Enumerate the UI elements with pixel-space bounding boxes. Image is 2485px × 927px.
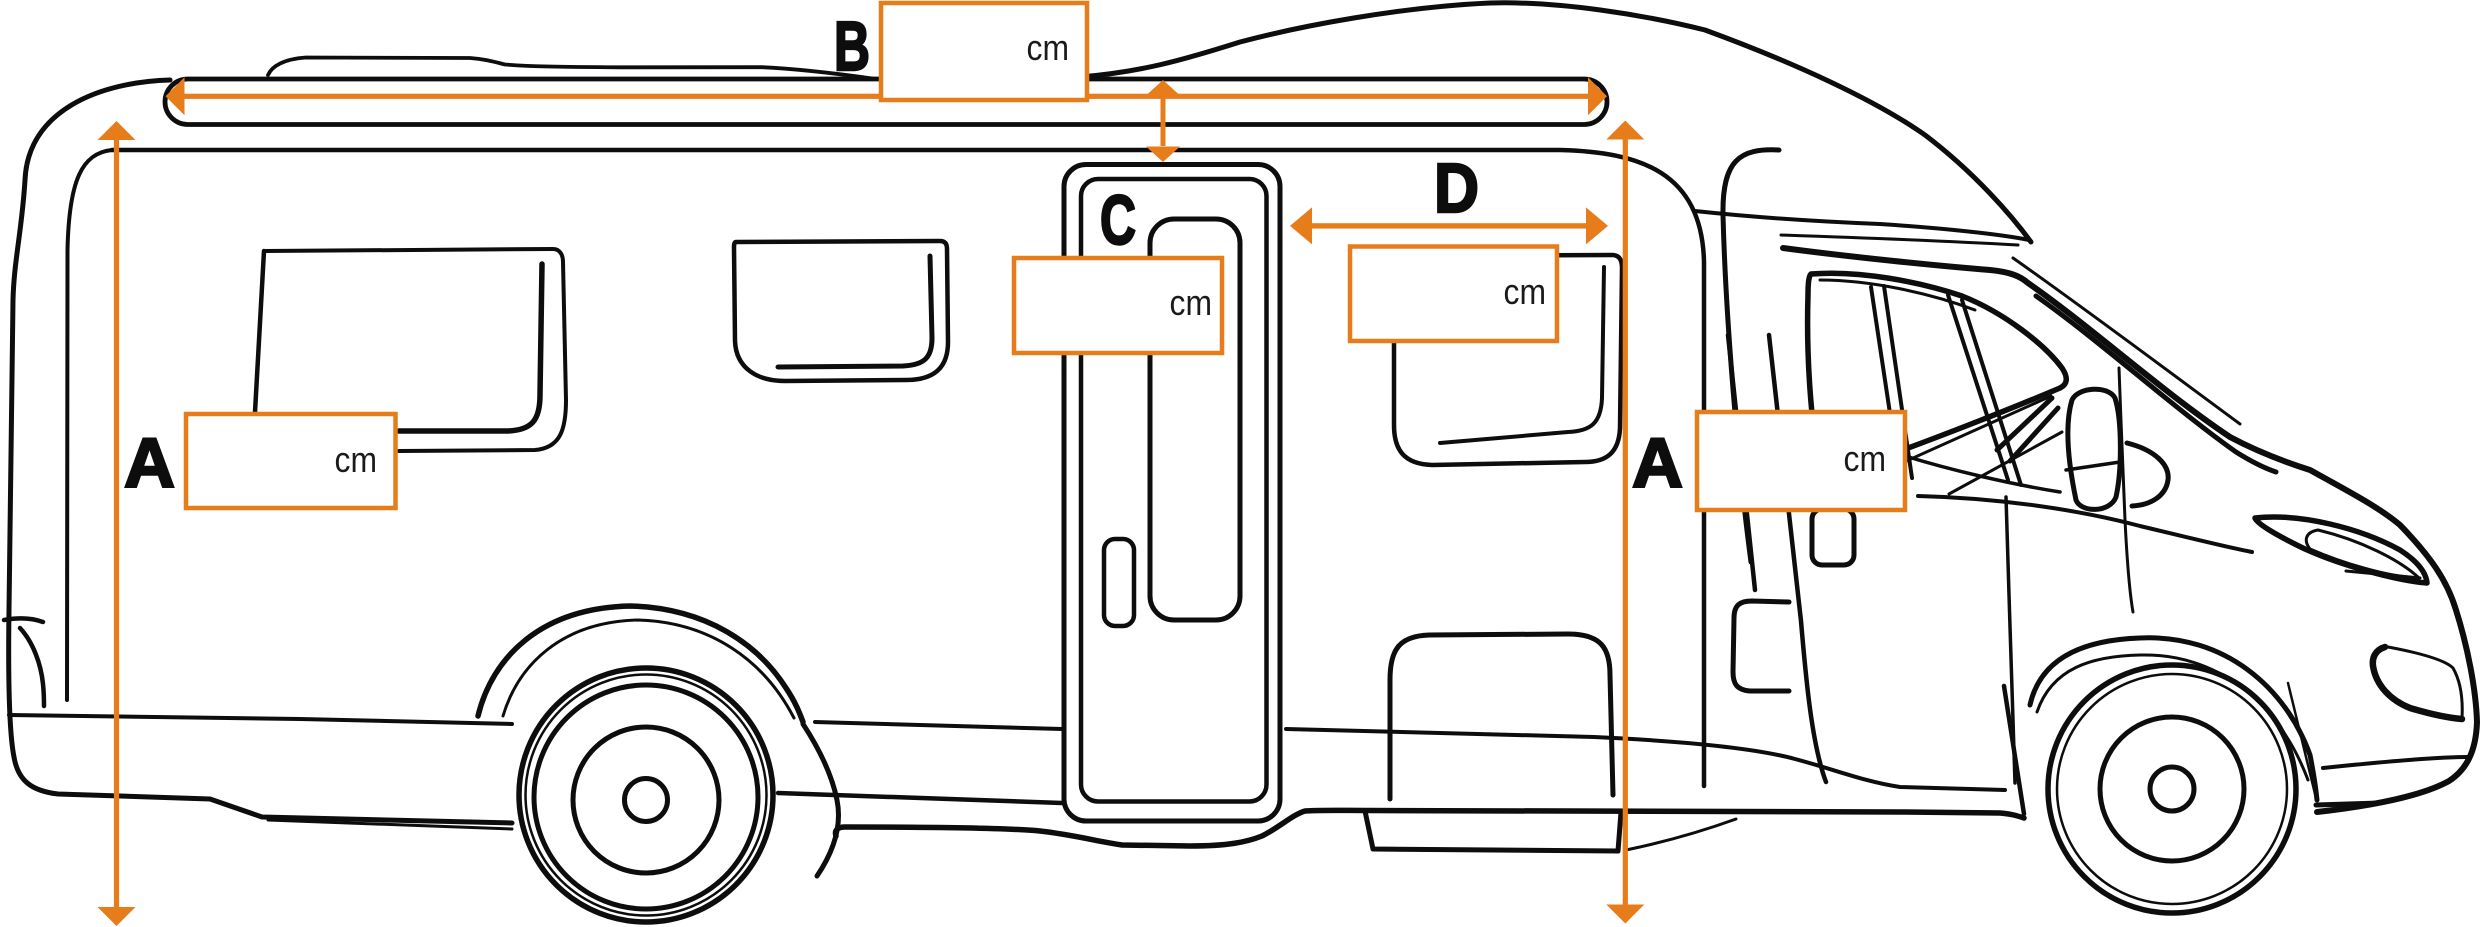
windscreen glass top edge (2013, 258, 2240, 424)
bottom edge mid (778, 793, 1062, 803)
bottom body edge swoosh (835, 810, 2024, 846)
cab side window (1808, 273, 2067, 468)
sill line front (1286, 729, 2005, 790)
cab rear pillar (1723, 150, 1779, 562)
svg-text:cm: cm (1504, 271, 1547, 312)
arrow A left head bottom (98, 907, 136, 926)
headlight accent (2346, 571, 2420, 578)
arrow A left shaft (114, 138, 119, 908)
arrow A right head top (1606, 121, 1644, 140)
rear body outer silhouette (9, 80, 512, 823)
front wheel arch leading edge (2004, 686, 2024, 814)
box A right (1697, 412, 1905, 510)
box D (1350, 247, 1557, 342)
bonnet line (1918, 496, 2252, 552)
cab door front edge upper (2119, 368, 2133, 612)
windscreen pillar drip rail and front silhouette (1783, 248, 2477, 812)
arrow A right shaft (1623, 138, 1628, 906)
overcab luton top curve (1080, 3, 2031, 242)
mirror divider (2066, 462, 2120, 470)
arrow C shaft (1161, 95, 1166, 146)
front wheel rim (2100, 717, 2244, 861)
rear inner corner line (67, 150, 112, 700)
rear wheel rim inner (573, 727, 719, 873)
front wheel tire (2048, 665, 2296, 913)
arrow C head top (1146, 80, 1180, 96)
arrow A left head top (98, 121, 136, 140)
rear wheel arch (478, 606, 803, 722)
overcab luton underside (1695, 211, 2029, 240)
cab B-pillar line 2 (1884, 286, 1912, 478)
front wheel hub (2150, 767, 2194, 811)
cab seatbelt pillar line 1 (1948, 295, 2008, 480)
headlight lens (2306, 530, 2419, 578)
svg-text:D: D (1434, 149, 1479, 227)
bumper accent line (2323, 757, 2469, 768)
rear wheel tire inner line (526, 675, 767, 916)
cab door rear edge line 2 (1769, 335, 1826, 782)
rear wheel tire (519, 668, 773, 922)
cab roof thin line (1781, 235, 2018, 245)
roof bump (268, 58, 872, 79)
cab B-pillar line 1 (1871, 287, 1900, 480)
wiper 1 (1902, 396, 2051, 463)
door window (1150, 219, 1240, 620)
svg-text:cm: cm (1027, 27, 1070, 68)
front wheel arch inner (2037, 655, 2308, 780)
sill line mid (815, 722, 1062, 729)
door handle (1104, 539, 1134, 626)
window right of door inner (1440, 267, 1604, 443)
step taper line (1626, 819, 1736, 850)
svg-text:A: A (1632, 424, 1683, 502)
entry step box (1365, 811, 1621, 851)
cab door handle recess (1733, 601, 1789, 691)
front arch trailing thin line (2288, 683, 2316, 798)
door outer (1064, 165, 1280, 822)
rear wheel rim outer (534, 685, 758, 909)
fog light (2373, 647, 2462, 719)
front wheel arch (2030, 638, 2317, 800)
mid window outer (734, 241, 948, 381)
storage hatch (1390, 634, 1613, 799)
rear wheel arch inner (503, 620, 794, 718)
roof awning rail (165, 79, 1607, 125)
svg-text:C: C (1100, 181, 1136, 259)
front wheel tire inner (2057, 674, 2287, 904)
headlight (2255, 517, 2427, 583)
mirror arm (1997, 398, 2058, 461)
mirror head (2068, 389, 2120, 509)
cab door front edge lower (2006, 497, 2015, 783)
door inner (1081, 179, 1267, 802)
window right of door outer (1394, 255, 1622, 465)
cab window inner top line (1820, 280, 1975, 310)
box B (881, 3, 1087, 100)
cab seatbelt pillar line 2 (1962, 300, 2021, 485)
arrow B head left (166, 77, 185, 115)
arrow D shaft (1310, 223, 1588, 228)
rear window left edge (255, 251, 264, 412)
front bumper bottom (2316, 803, 2380, 805)
cab door rear edge line 1 (1728, 335, 1755, 590)
skirt thin line rear (268, 820, 512, 829)
rear window outer (264, 249, 566, 451)
box C (1014, 258, 1222, 353)
rear window inner (399, 264, 542, 431)
cab door shadow crescent (2127, 443, 2168, 506)
cab window sill line (1902, 455, 2060, 492)
arrow D head right (1586, 207, 1608, 244)
svg-text:cm: cm (1170, 282, 1213, 323)
body top edge line (112, 150, 1704, 786)
svg-text:B: B (834, 7, 870, 85)
svg-text:cm: cm (335, 439, 378, 480)
cab door handle (1812, 509, 1854, 565)
arrow B head right (1588, 77, 1607, 115)
rear bumper end cap (4, 618, 44, 706)
svg-text:cm: cm (1844, 438, 1887, 479)
rear mudflap curve (803, 724, 839, 876)
arrow B shaft (184, 94, 1589, 99)
windscreen pillar lower line (2036, 296, 2276, 472)
wiper 2 (1949, 432, 2062, 494)
arrow A right head bottom (1606, 905, 1644, 924)
box A left (186, 414, 396, 508)
fog light top edge (2388, 647, 2462, 718)
mid window inner (778, 256, 932, 367)
arrow C head bottom (1146, 147, 1180, 163)
svg-text:A: A (124, 424, 175, 502)
sill line rear (9, 715, 512, 724)
arrow D head left (1290, 207, 1312, 244)
rear wheel hub (625, 779, 668, 822)
